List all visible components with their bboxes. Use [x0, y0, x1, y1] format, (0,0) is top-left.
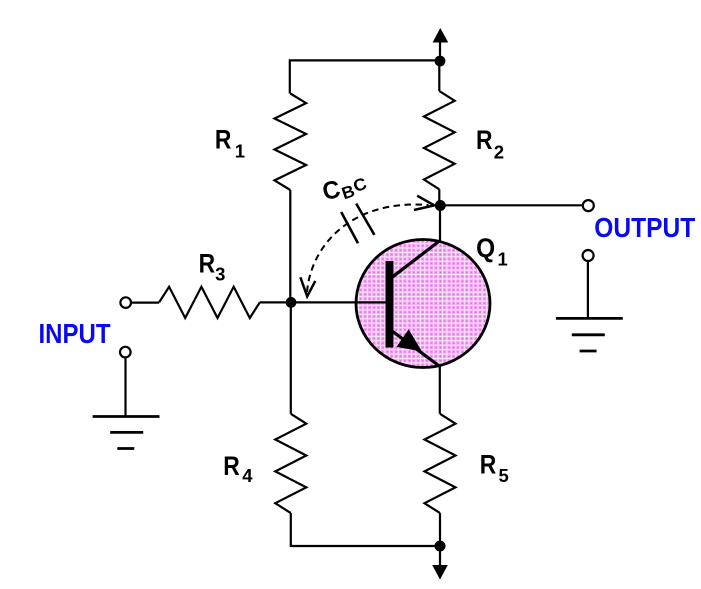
wire top rail	[290, 60, 440, 93]
svg-text:R: R	[199, 249, 216, 279]
power arrow up (Vcc)	[433, 29, 447, 61]
wire base node to R4	[290, 302, 292, 413]
svg-text:3: 3	[215, 263, 225, 284]
label C_BC	[320, 174, 369, 206]
capacitor C_BC arrowhead at base	[300, 277, 315, 296]
label R5	[480, 450, 509, 486]
svg-text:1: 1	[498, 248, 508, 269]
wire R2 bottom to collector node	[438, 189, 440, 205]
resistor R1	[275, 94, 307, 191]
label R3	[199, 249, 226, 285]
capacitor C_BC plate 1	[341, 212, 358, 243]
label R4	[223, 451, 253, 486]
wire collector node to transistor	[439, 206, 441, 242]
resistor R2	[424, 91, 455, 189]
wire emitter to R5	[439, 366, 441, 414]
input ground terminal	[120, 347, 131, 358]
svg-text:R: R	[480, 450, 497, 480]
wire base lead inside transistor	[355, 301, 387, 303]
svg-text:Q: Q	[476, 233, 495, 263]
svg-text:INPUT: INPUT	[39, 318, 111, 349]
output ground terminal	[583, 250, 594, 261]
svg-text:R: R	[215, 125, 232, 155]
output terminal	[583, 200, 594, 211]
node base junction	[286, 297, 297, 308]
node bottom junction	[435, 541, 446, 552]
resistor R5	[425, 414, 456, 513]
label Q1	[476, 233, 508, 269]
power arrow down (Vee)	[433, 546, 447, 579]
transistor Q1 body	[356, 240, 490, 368]
capacitor C_BC arrowhead at collector	[414, 196, 434, 210]
svg-text:2: 2	[494, 141, 504, 162]
label R2	[476, 125, 504, 163]
transistor Q1 base bar	[386, 261, 394, 348]
svg-text:R: R	[476, 125, 493, 155]
transistor Q1 collector lead	[392, 240, 441, 277]
transistor Q1 emitter arrow	[398, 331, 421, 351]
svg-text:5: 5	[499, 465, 509, 486]
wire bottom rail	[291, 513, 440, 546]
resistor R3	[159, 287, 260, 318]
svg-text:1: 1	[235, 141, 245, 162]
svg-text:R: R	[223, 451, 240, 481]
label R1	[215, 125, 245, 162]
transistor Q1 emitter lead	[392, 331, 440, 367]
capacitor C_BC dashed feedback path	[307, 204, 429, 292]
wire input terminal to R3	[131, 302, 159, 304]
ground input	[93, 358, 160, 449]
capacitor C_BC plate 2	[356, 204, 374, 235]
node top junction	[435, 56, 446, 67]
svg-text:OUTPUT: OUTPUT	[594, 212, 695, 243]
svg-text:C: C	[320, 175, 343, 206]
wire R1 bottom to base node	[289, 190, 291, 302]
resistor R4	[275, 414, 306, 513]
node collector junction	[435, 200, 446, 211]
input terminal	[120, 297, 131, 308]
wire R3 to base node and on to transistor base	[260, 301, 387, 303]
ground output	[556, 261, 623, 351]
wire output	[440, 204, 583, 206]
svg-text:4: 4	[242, 465, 253, 486]
